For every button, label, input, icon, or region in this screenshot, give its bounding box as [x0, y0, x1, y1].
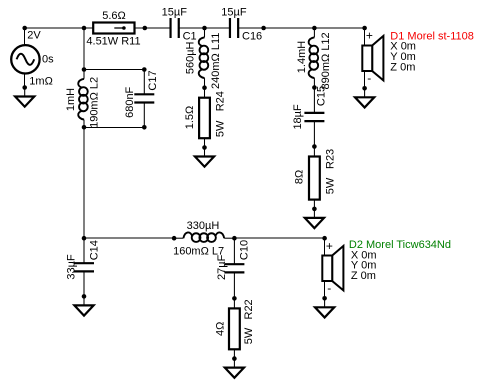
wire top rail left segment (source to R11)	[25, 27, 94, 29]
svg-text:5W: 5W	[243, 327, 255, 344]
svg-text:190mΩ L2: 190mΩ L2	[89, 77, 101, 128]
svg-text:C1: C1	[183, 31, 197, 43]
resistor R22	[229, 298, 240, 358]
svg-text:240mΩ L11: 240mΩ L11	[210, 33, 222, 89]
node D2 plus	[322, 236, 327, 241]
wire L2 to bottom rail	[83, 127, 85, 238]
node D2 minus	[322, 296, 327, 301]
svg-text:R23: R23	[325, 149, 337, 169]
svg-text:Z 0m: Z 0m	[390, 61, 415, 73]
svg-text:4.51W R11: 4.51W R11	[86, 36, 140, 48]
svg-text:2V: 2V	[27, 29, 41, 41]
wire source top lead	[24, 28, 26, 45]
svg-text:R22: R22	[243, 299, 255, 319]
inductor L12	[309, 28, 319, 88]
svg-text:Z 0m: Z 0m	[351, 270, 376, 282]
wire bottom rail L7 to D2	[234, 237, 324, 239]
svg-text:-: -	[367, 71, 371, 85]
wire node A to C17 top	[84, 69, 144, 71]
node R23 ground pin	[312, 207, 317, 212]
svg-text:C17: C17	[147, 70, 159, 90]
resistor R24	[199, 88, 210, 148]
wire D2 bottom lead	[324, 281, 326, 298]
node C14 top junction	[82, 236, 87, 241]
ground under D2	[315, 298, 334, 317]
svg-text:1mΩ: 1mΩ	[29, 76, 53, 88]
ground under R23	[305, 209, 324, 228]
capacitor C16	[205, 18, 264, 38]
svg-text:1mH: 1mH	[65, 88, 77, 111]
voltage source V1 sine wave	[17, 54, 35, 65]
svg-text:C16: C16	[242, 31, 262, 43]
inductor L7	[174, 232, 234, 242]
svg-text:330µH: 330µH	[187, 220, 220, 232]
svg-text:890mΩ L12: 890mΩ L12	[320, 32, 332, 89]
node L7 left pin	[172, 236, 177, 241]
svg-text:+: +	[366, 29, 373, 43]
node L2 bottom pin	[82, 125, 87, 130]
capacitor C15	[304, 88, 324, 147]
wire D1 top lead	[364, 28, 366, 46]
node C14 ground pin	[82, 294, 87, 299]
svg-text:5.6Ω: 5.6Ω	[102, 10, 126, 22]
svg-text:R24: R24	[215, 91, 227, 111]
capacitor C10	[224, 238, 244, 298]
wire C17 bottom to node B	[84, 126, 144, 128]
ground under D1	[355, 88, 374, 107]
node source bottom	[22, 85, 27, 90]
wire source bottom lead	[24, 73, 26, 87]
svg-text:15µF: 15µF	[162, 6, 188, 18]
svg-text:-: -	[327, 281, 331, 295]
inductor L2	[78, 70, 88, 128]
speaker D1	[362, 36, 383, 81]
wire D1 bottom lead	[364, 71, 366, 88]
node R22 ground pin	[232, 356, 237, 361]
wire top rail C16 to D1	[238, 27, 365, 29]
wire top rail C1 to C16	[179, 27, 230, 29]
node L2 top junction	[82, 26, 87, 31]
node D1 minus	[362, 86, 367, 91]
svg-text:27µF: 27µF	[216, 254, 228, 280]
node L11-R24 junction	[202, 85, 207, 90]
svg-text:0s: 0s	[42, 54, 54, 66]
svg-text:4Ω: 4Ω	[214, 322, 226, 336]
node L2 top pin	[82, 67, 87, 72]
svg-text:18µF: 18µF	[292, 104, 304, 130]
wire bottom rail left segment	[84, 237, 174, 239]
ground under R22	[225, 359, 244, 378]
speaker D2	[322, 246, 343, 291]
node L12-C15 junction	[312, 85, 317, 90]
ground under source	[15, 88, 34, 107]
svg-text:+: +	[326, 239, 333, 253]
svg-text:1.4mH: 1.4mH	[296, 41, 308, 73]
svg-text:33µF: 33µF	[66, 254, 78, 280]
node C15-R23 junction	[312, 144, 317, 149]
svg-text:1.5Ω: 1.5Ω	[184, 106, 196, 130]
wire top rail R11 to C1	[135, 27, 171, 29]
wire L2 branch from top rail	[83, 28, 85, 70]
node D1 plus	[362, 26, 367, 31]
wire D2 top lead	[324, 238, 326, 255]
node R11 right pin	[143, 26, 148, 31]
node L12 top junction	[312, 26, 317, 31]
svg-text:C10: C10	[239, 240, 251, 260]
svg-text:560µH: 560µH	[185, 41, 197, 74]
node C16 right pin	[261, 26, 266, 31]
node source top	[22, 26, 27, 31]
ground under C14	[74, 296, 93, 315]
inductor L11	[199, 28, 209, 88]
resistor R11	[93, 23, 134, 34]
capacitor C1	[145, 18, 205, 38]
svg-text:5W: 5W	[325, 177, 337, 194]
voltage source V1 circle	[11, 45, 39, 73]
svg-text:8Ω: 8Ω	[294, 170, 306, 184]
capacitor C14	[74, 238, 94, 296]
ground under R24	[195, 148, 214, 167]
svg-text:C14: C14	[88, 240, 100, 260]
svg-text:680nF: 680nF	[124, 86, 136, 117]
node C17 top pin	[142, 67, 147, 72]
svg-text:C15: C15	[315, 86, 327, 106]
svg-text:15µF: 15µF	[221, 6, 247, 18]
node L11 top junction	[202, 26, 207, 31]
capacitor C17	[134, 70, 154, 128]
node C17 bottom pin	[142, 125, 147, 130]
node C10-R22 junction	[232, 296, 237, 301]
node R24 ground pin	[202, 145, 207, 150]
svg-text:5W: 5W	[215, 120, 227, 137]
node L7-C10 junction	[232, 236, 237, 241]
resistor R23	[309, 147, 320, 209]
